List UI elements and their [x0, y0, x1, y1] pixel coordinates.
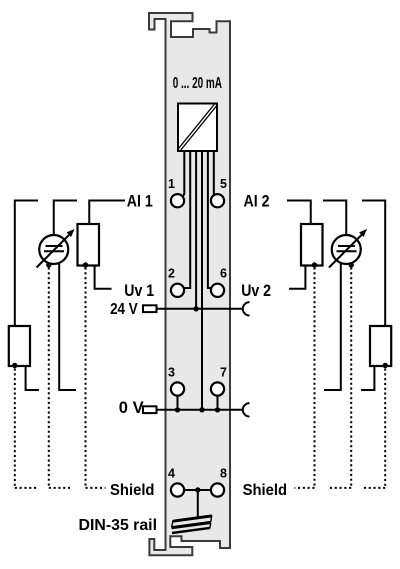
svg-text:Uv 1: Uv 1 — [124, 281, 154, 300]
svg-text:AI 1: AI 1 — [127, 191, 153, 210]
svg-text:2: 2 — [168, 267, 175, 281]
svg-text:4: 4 — [168, 466, 175, 480]
svg-text:Shield: Shield — [243, 482, 288, 499]
svg-text:0 ... 20 mA: 0 ... 20 mA — [173, 75, 223, 92]
svg-text:7: 7 — [220, 365, 227, 379]
svg-text:0 V: 0 V — [119, 398, 144, 417]
svg-text:24 V: 24 V — [110, 301, 138, 318]
svg-text:8: 8 — [220, 466, 227, 480]
svg-text:1: 1 — [168, 177, 175, 191]
svg-text:Uv 2: Uv 2 — [241, 281, 271, 300]
svg-text:3: 3 — [168, 365, 175, 379]
svg-text:5: 5 — [220, 177, 227, 191]
svg-text:DIN-35 rail: DIN-35 rail — [79, 517, 158, 534]
svg-text:Shield: Shield — [110, 482, 155, 499]
svg-text:AI 2: AI 2 — [244, 191, 270, 210]
svg-text:6: 6 — [220, 267, 227, 281]
